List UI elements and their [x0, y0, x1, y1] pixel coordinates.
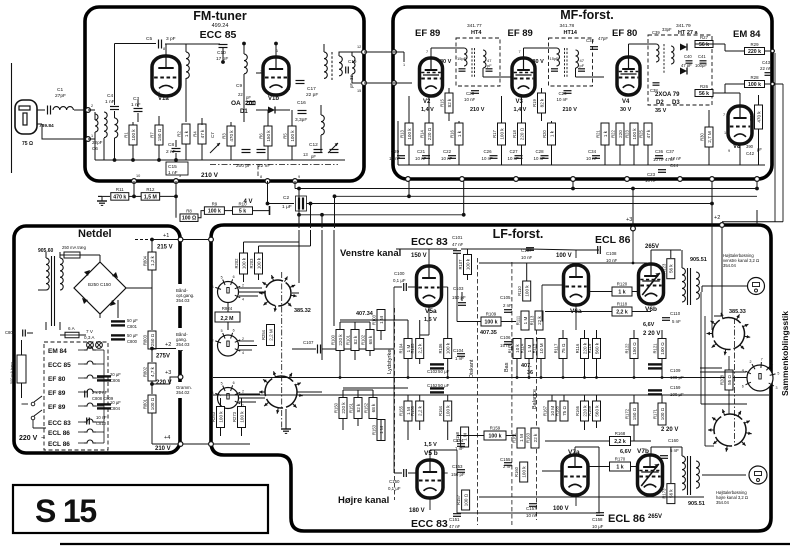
capacitor IF 2	[486, 69, 493, 71]
x	[598, 447, 600, 513]
svg-text:35 V: 35 V	[655, 108, 667, 114]
capacitor C107	[318, 345, 321, 354]
wire	[482, 68, 484, 77]
DIN socket Band-gang	[212, 329, 245, 357]
resistor R17	[492, 123, 506, 145]
svg-text:pF: pF	[487, 63, 492, 68]
resistor R10	[233, 201, 253, 214]
svg-text:+3: +3	[165, 370, 171, 376]
svg-text:R116: R116	[575, 343, 580, 353]
resistor R20	[542, 123, 556, 145]
svg-text:C27: C27	[510, 149, 519, 154]
capacitor C110	[662, 318, 670, 321]
terminal +2	[720, 223, 725, 228]
svg-text:C801: C801	[127, 324, 138, 329]
wire terminal 10 drop	[133, 181, 135, 196]
IF transformer 341.77 HT4	[456, 38, 500, 86]
coil IF primary	[557, 48, 560, 66]
coil L6 secondary	[339, 56, 342, 76]
svg-text:C153: C153	[452, 464, 463, 469]
junction	[633, 376, 636, 379]
svg-text:EF 80: EF 80	[612, 28, 637, 39]
wire	[467, 249, 469, 254]
x	[575, 446, 599, 448]
svg-text:75 Ω: 75 Ω	[561, 343, 566, 353]
wire to V6a grid	[542, 284, 563, 286]
svg-text:R159: R159	[490, 426, 501, 431]
capacitor C8	[172, 149, 181, 152]
svg-text:220 k: 220 k	[748, 49, 761, 55]
capacitor	[448, 156, 456, 159]
svg-text:10 μF: 10 μF	[592, 524, 604, 529]
x	[711, 189, 713, 225]
wire	[647, 145, 649, 165]
wire	[526, 263, 528, 281]
svg-text:R164: R164	[438, 405, 443, 416]
svg-text:EF 89: EF 89	[48, 404, 66, 411]
x	[297, 391, 322, 393]
wire	[60, 254, 64, 256]
svg-text:C106: C106	[500, 335, 511, 340]
wire	[256, 109, 268, 111]
wire	[132, 122, 134, 125]
wire	[394, 472, 402, 474]
tube V8 EM84	[728, 106, 752, 144]
svg-text:ECC 83: ECC 83	[48, 420, 71, 427]
resistor R8	[180, 208, 198, 221]
svg-text:220 V: 220 V	[19, 435, 38, 442]
svg-text:R171: R171	[653, 408, 658, 419]
wire	[447, 421, 449, 440]
wire LF term 4 feed	[334, 196, 336, 228]
tube V1b ECC85 triode	[263, 57, 289, 95]
coil L6 primary	[324, 52, 327, 78]
wire	[291, 146, 293, 160]
resistor R254	[261, 325, 275, 346]
wire	[633, 395, 635, 403]
wire +2 down	[721, 228, 723, 316]
wire FM to MF link top	[364, 51, 394, 53]
resistor R7	[150, 125, 164, 145]
dash pot gang Diskant	[477, 258, 479, 525]
terminal MF bottom 573	[571, 177, 576, 182]
wire	[339, 322, 341, 329]
wire to pin 1	[42, 124, 88, 139]
resistor R103	[372, 310, 386, 331]
speaker jack hojre	[749, 466, 767, 484]
wire to V7a grid	[542, 470, 563, 472]
svg-text:R110: R110	[517, 285, 522, 295]
terminal +3	[178, 375, 183, 380]
capacitor C105	[504, 310, 512, 313]
svg-text:22 nF: 22 nF	[258, 163, 270, 169]
wire	[661, 359, 663, 378]
svg-text:R7: R7	[150, 132, 155, 138]
svg-text:V3: V3	[516, 99, 524, 105]
wire heater	[78, 349, 84, 351]
svg-text:C42: C42	[746, 151, 755, 156]
svg-text:47 nF: 47 nF	[449, 524, 461, 529]
svg-text:220 Ω: 220 Ω	[519, 127, 524, 140]
wire heater	[78, 391, 84, 393]
wire	[220, 398, 222, 406]
capacitor C152 50uF	[430, 388, 444, 392]
wire tap	[38, 289, 46, 291]
svg-text:100 k: 100 k	[485, 320, 498, 326]
transformer 905.51 core	[687, 268, 689, 305]
capacitor C805	[23, 330, 26, 337]
svg-text:C41: C41	[698, 54, 706, 59]
wire mid bus 2	[213, 394, 769, 396]
junction	[297, 213, 301, 217]
terminal 1 FM box	[86, 137, 91, 142]
wire	[708, 110, 710, 127]
wire socket2 pin2	[239, 349, 252, 351]
wire	[681, 447, 683, 456]
coil 905.51b secondary	[696, 461, 699, 488]
coil transformer secondary	[60, 258, 63, 290]
resistor R26	[695, 84, 713, 97]
svg-text:210 V: 210 V	[563, 107, 578, 113]
svg-text:R172: R172	[625, 408, 630, 419]
wire	[351, 74, 353, 83]
svg-text:C4: C4	[107, 93, 113, 99]
svg-text:R120: R120	[617, 282, 628, 287]
bridge diode 2	[112, 272, 118, 278]
svg-text:R152: R152	[364, 402, 369, 413]
dash-dot wafer gang	[281, 272, 283, 428]
wire	[230, 146, 232, 160]
svg-text:R117: R117	[554, 343, 559, 353]
coil 905.51 secondary	[696, 272, 699, 299]
svg-text:5 nF: 5 nF	[672, 319, 681, 324]
svg-text:C44: C44	[670, 163, 679, 168]
wire	[545, 311, 612, 313]
svg-text:V1b: V1b	[268, 96, 279, 102]
det core	[663, 44, 665, 74]
capacitor C808	[85, 391, 88, 398]
svg-text:R9: R9	[212, 201, 218, 206]
wire	[574, 447, 576, 455]
x	[632, 311, 651, 313]
wire	[258, 246, 260, 253]
wire anode	[430, 48, 432, 58]
gang capacitor 2	[257, 150, 266, 153]
junction	[333, 194, 337, 198]
resistor R924 2,2M	[215, 306, 240, 322]
x	[343, 387, 408, 389]
wire	[151, 413, 153, 444]
coil 905.51b primary	[682, 456, 685, 490]
wire	[239, 345, 257, 347]
svg-text:560 k: 560 k	[594, 342, 599, 354]
svg-text:C34: C34	[588, 149, 597, 154]
wire heater	[96, 405, 104, 407]
svg-text:R170: R170	[615, 457, 626, 462]
svg-text:150 V: 150 V	[411, 253, 427, 259]
wire	[275, 109, 290, 111]
trimmer C7	[210, 143, 220, 153]
svg-text:R19: R19	[532, 98, 537, 106]
junction	[242, 42, 246, 46]
MF-forst block border	[393, 7, 772, 179]
svg-text:2 20 V: 2 20 V	[643, 331, 660, 337]
resistor R115	[532, 339, 546, 359]
wire	[137, 113, 139, 122]
terminal +4	[178, 442, 183, 447]
svg-text:R102: R102	[361, 334, 366, 345]
wire	[589, 291, 612, 293]
x	[756, 210, 758, 225]
junction	[710, 202, 714, 206]
capacitor	[515, 156, 523, 159]
S15 model label box	[13, 485, 268, 533]
svg-text:1,5 M: 1,5 M	[144, 194, 157, 200]
svg-text:56 k: 56 k	[669, 264, 674, 273]
resistor R173	[661, 484, 675, 504]
svg-text:R160: R160	[514, 466, 519, 477]
svg-text:10 μF: 10 μF	[110, 400, 121, 405]
resistor R102	[361, 330, 375, 351]
svg-text:36: 36	[527, 370, 533, 376]
resistor R152	[364, 398, 378, 419]
heater ECL 86	[84, 429, 96, 432]
junction	[562, 376, 565, 379]
wire right col 3	[711, 225, 713, 330]
svg-text:150 pF: 150 pF	[452, 295, 466, 300]
svg-text:C36: C36	[655, 149, 664, 154]
tube V2	[420, 58, 443, 96]
boxed label C15	[166, 162, 188, 175]
svg-text:385.33: 385.33	[729, 309, 746, 315]
svg-text:R23: R23	[625, 129, 630, 137]
wire	[408, 286, 416, 288]
wire	[407, 421, 409, 440]
svg-text:200: 200	[245, 100, 256, 107]
svg-text:47 k: 47 k	[646, 129, 651, 138]
wire	[765, 50, 776, 52]
terminal MF bottom 680	[678, 177, 683, 182]
svg-text:150 Ω: 150 Ω	[632, 342, 637, 355]
svg-text:D3: D3	[672, 100, 680, 106]
terminal MF bottom 757	[755, 177, 760, 182]
wire terminal 5 drop	[175, 181, 177, 218]
wire heater	[78, 405, 84, 407]
terminal MF bottom 627	[625, 177, 630, 182]
wire	[758, 129, 760, 165]
resistor R114	[520, 339, 534, 359]
svg-text:C23: C23	[647, 172, 656, 177]
x	[292, 292, 299, 294]
svg-text:22 nF: 22 nF	[760, 66, 772, 71]
svg-text:R17: R17	[492, 129, 497, 137]
fuse 250mA	[64, 252, 80, 258]
wire	[393, 287, 395, 349]
svg-text:15: 15	[357, 89, 361, 93]
resistor R27	[695, 35, 713, 48]
svg-text:470 k: 470 k	[229, 130, 234, 142]
capacitor C158	[596, 513, 604, 516]
junction	[339, 376, 342, 379]
wire FM ground bus	[95, 159, 345, 161]
svg-text:ECL 86: ECL 86	[608, 513, 645, 525]
IF core2	[566, 48, 568, 78]
svg-text:R161: R161	[512, 432, 517, 443]
wire	[129, 195, 141, 197]
wire cathode V5a down	[428, 306, 430, 335]
svg-text:HT 27 a: HT 27 a	[678, 30, 699, 36]
svg-text:Højre kanal: Højre kanal	[338, 495, 389, 506]
wire +4 to LF	[183, 443, 208, 445]
svg-text:EF 89: EF 89	[415, 28, 440, 39]
svg-text:341.79: 341.79	[676, 23, 691, 29]
capacitor C44	[658, 170, 666, 173]
svg-text:R29: R29	[750, 42, 759, 47]
svg-text:C804: C804	[110, 406, 121, 411]
coil L7	[352, 56, 355, 74]
wire	[516, 359, 518, 378]
wire	[584, 359, 586, 378]
wire	[584, 395, 586, 401]
resistor R119	[587, 339, 601, 359]
svg-text:10 nF: 10 nF	[557, 97, 569, 102]
terminal R29 out	[771, 49, 775, 53]
transformer 905.51b core	[687, 456, 689, 495]
x	[447, 287, 449, 320]
wire	[394, 286, 402, 288]
tube V1a ECC85 triode	[152, 56, 180, 96]
svg-text:3: 3	[288, 87, 290, 91]
junction	[174, 158, 178, 162]
svg-text:8: 8	[260, 175, 262, 179]
svg-text:250 Ω: 250 Ω	[150, 333, 155, 346]
wire	[468, 248, 531, 250]
x	[714, 315, 722, 317]
svg-text:2,2 k: 2,2 k	[616, 310, 628, 316]
Netdel block border	[14, 226, 180, 453]
wire	[431, 47, 464, 49]
svg-text:C800: C800	[127, 339, 138, 344]
svg-text:10 nF: 10 nF	[606, 258, 618, 263]
svg-text:68 k: 68 k	[368, 335, 373, 344]
resistor R117	[554, 339, 568, 359]
junction	[583, 376, 586, 379]
wire	[151, 381, 153, 394]
capacitor C1	[48, 106, 51, 115]
wire	[394, 51, 404, 53]
wire	[708, 147, 710, 165]
svg-text:82 k: 82 k	[356, 403, 361, 412]
svg-text:4 V: 4 V	[244, 199, 253, 205]
junction	[297, 187, 301, 191]
wire anode	[523, 48, 525, 58]
dash-dot wafer gang right	[734, 318, 736, 446]
wire	[45, 252, 47, 258]
heater EF 80	[84, 375, 96, 378]
wire	[584, 330, 586, 338]
resistor R167	[543, 401, 557, 421]
capacitor C101	[453, 251, 461, 254]
svg-text:pF: pF	[580, 63, 585, 68]
rotary switch wafer 385.32	[259, 275, 297, 312]
junction	[516, 376, 519, 379]
resistor R1	[124, 125, 138, 145]
svg-text:C15: C15	[168, 164, 177, 170]
svg-text:C158: C158	[592, 517, 603, 522]
resistor R5	[283, 126, 297, 146]
capacitor C150	[404, 469, 407, 477]
tube V6b ECL86 pentode	[639, 264, 664, 304]
wire	[117, 300, 119, 318]
svg-text:27pF: 27pF	[55, 93, 66, 99]
wire	[151, 349, 153, 362]
wire rail 513	[457, 512, 600, 514]
wire	[258, 274, 260, 280]
core FM IF transformer	[331, 52, 333, 80]
svg-text:7: 7	[761, 358, 763, 362]
svg-text:1,2 k: 1,2 k	[150, 255, 155, 266]
svg-text:C43: C43	[762, 60, 771, 65]
svg-text:R202: R202	[234, 258, 239, 269]
svg-text:1 k: 1 k	[616, 465, 623, 471]
svg-text:10: 10	[136, 174, 140, 178]
capacitor C41	[700, 61, 707, 63]
wire socket2 pin	[239, 340, 254, 342]
svg-text:R14: R14	[420, 129, 425, 137]
resistor R164	[438, 401, 452, 421]
svg-text:R5: R5	[283, 133, 288, 139]
svg-text:+3: +3	[626, 217, 632, 223]
wire	[88, 109, 95, 111]
wire	[151, 240, 153, 289]
svg-text:C108: C108	[606, 251, 617, 256]
terminal 2 FM box	[86, 108, 91, 113]
svg-text:1: 1	[724, 131, 726, 135]
wire R208 top	[728, 356, 730, 370]
capacitor C155	[504, 463, 512, 466]
terminal 10	[132, 179, 137, 184]
wire	[419, 421, 421, 430]
svg-text:C805: C805	[5, 330, 16, 335]
svg-text:R113: R113	[530, 315, 535, 325]
netdel border seg restore1	[195, 283, 197, 403]
wire right col 1b	[701, 403, 747, 405]
junction	[221, 60, 225, 64]
wire	[222, 48, 224, 62]
capacitor	[541, 156, 549, 159]
svg-text:275V: 275V	[156, 354, 170, 360]
wire	[291, 110, 293, 126]
LF-forst block border	[211, 225, 771, 531]
transformer 905.51 core2	[690, 268, 692, 305]
junction	[150, 382, 154, 386]
svg-text:Bas: Bas	[504, 362, 510, 372]
wire	[419, 320, 421, 338]
svg-text:2,2 k: 2,2 k	[614, 439, 626, 445]
svg-text:6: 6	[742, 385, 744, 389]
wire	[380, 331, 382, 340]
wire	[132, 145, 134, 160]
wire	[80, 254, 100, 256]
wire heater	[78, 431, 84, 433]
svg-text:R100: R100	[331, 334, 336, 345]
switch contact 1	[31, 396, 42, 406]
svg-text:V2: V2	[423, 99, 431, 105]
svg-text:55 Ω: 55 Ω	[727, 375, 732, 385]
wire	[94, 132, 96, 160]
svg-text:R8: R8	[186, 208, 192, 213]
svg-text:R15: R15	[440, 98, 445, 106]
